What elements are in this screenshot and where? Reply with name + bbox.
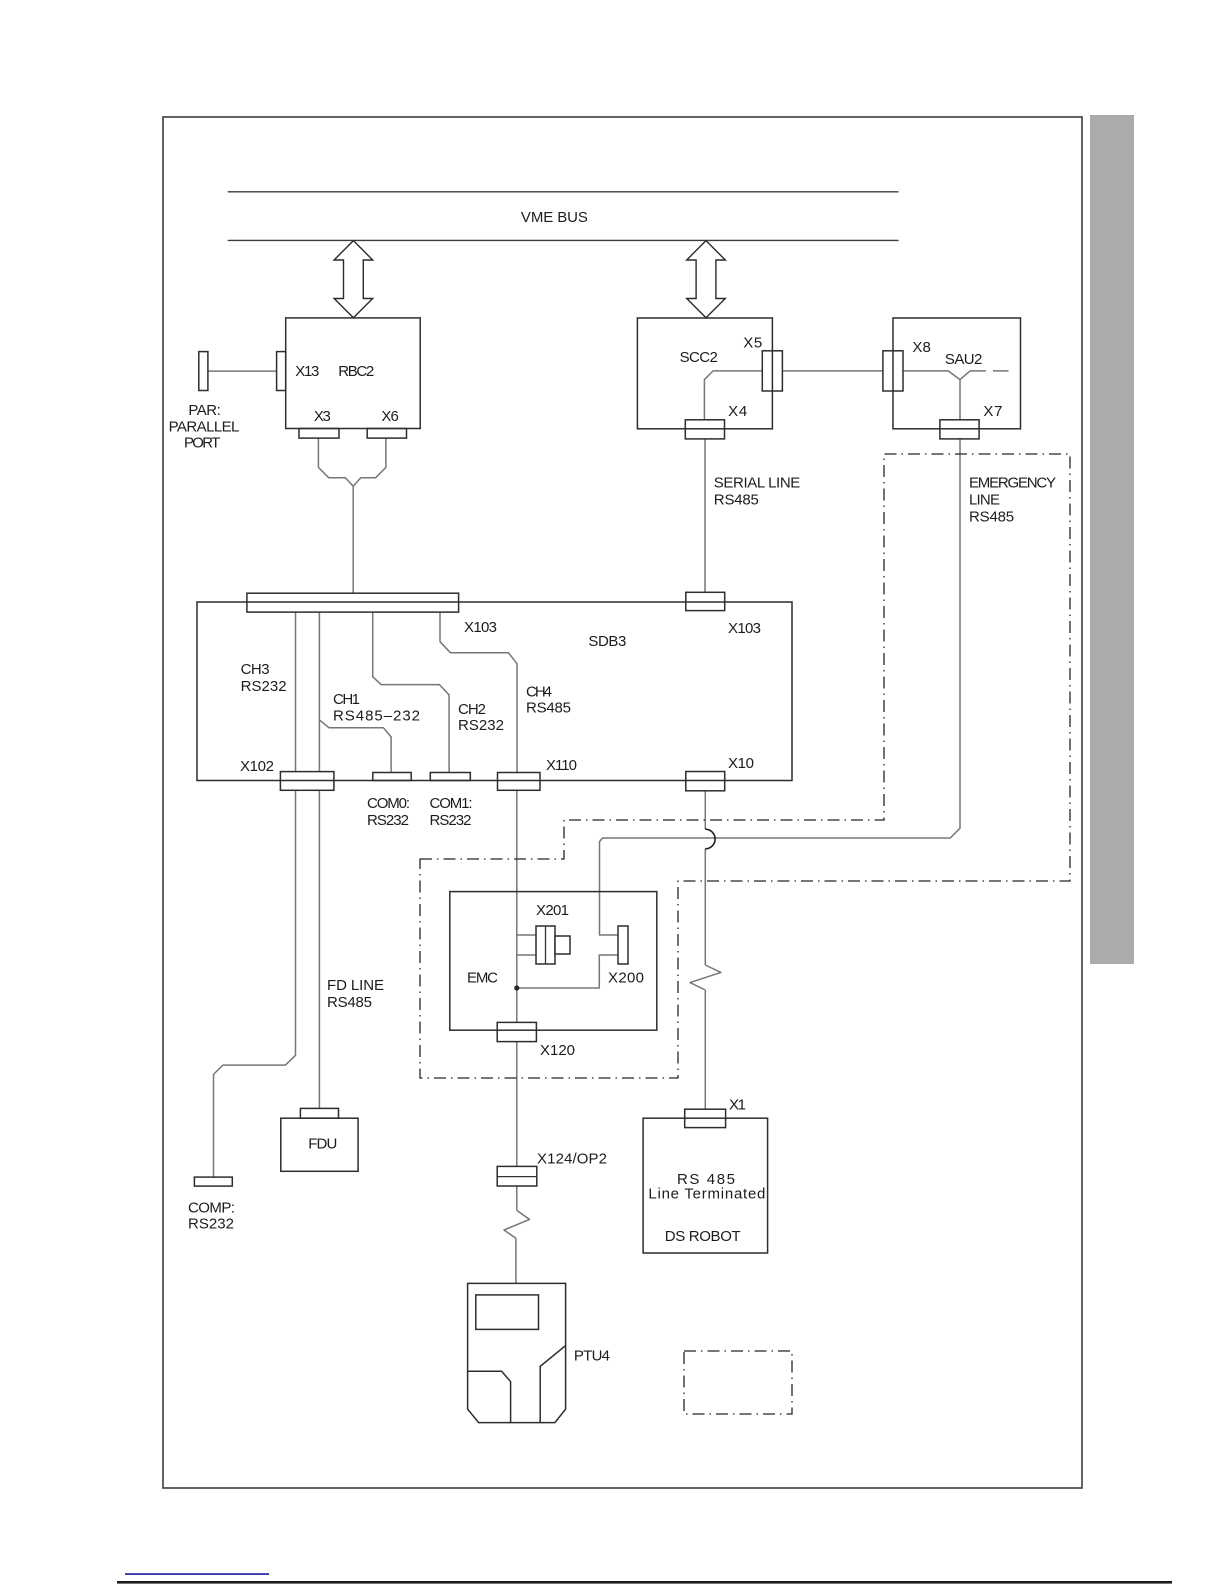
box SAU2 (893, 318, 1021, 429)
svg-text:COM1:: COM1: (430, 795, 473, 812)
svg-text:RS485–232: RS485–232 (333, 708, 420, 725)
box RBC2 (286, 318, 421, 429)
connector X5 (762, 351, 782, 391)
svg-text:X124/OP2: X124/OP2 (537, 1151, 607, 1168)
svg-text:VME BUS: VME BUS (521, 209, 588, 226)
wire X3 merge branch (318, 438, 353, 486)
connector X6 (367, 429, 406, 439)
connector FDU top (300, 1108, 338, 1118)
svg-text:SAU2: SAU2 (945, 351, 983, 368)
svg-text:X120: X120 (540, 1042, 575, 1059)
wire junction to X120 (516, 988, 518, 1022)
wire cable break to PTU4 (515, 1238, 517, 1283)
connector X110 (498, 773, 541, 791)
box SCC2 (637, 318, 772, 429)
emergency/EMC dash-dot boundary (420, 454, 1070, 1078)
svg-text:CH4: CH4 (526, 684, 552, 701)
wire EMC junction to X200 (517, 955, 618, 988)
wire CH4 to X110 (440, 612, 517, 772)
wire X6 merge branch (353, 438, 386, 486)
svg-text:Line Terminated: Line Terminated (648, 1186, 765, 1203)
wire CH2 to COM1 (373, 612, 449, 772)
wire serial X4 to X103 (704, 439, 706, 592)
svg-text:FDU: FDU (308, 1135, 337, 1152)
wire CH3 to X102 and COMP (214, 612, 296, 1177)
wire SCC2 X5 to X4 (704, 371, 762, 420)
svg-text:X3: X3 (314, 408, 331, 425)
connector X8 (883, 351, 903, 391)
box DS ROBOT (643, 1118, 768, 1253)
svg-text:X103: X103 (728, 620, 761, 637)
wire CH3 second line to FDU (318, 612, 320, 1108)
page frame (decorative) (163, 117, 1082, 1488)
svg-text:EMERGENCY: EMERGENCY (969, 474, 1056, 491)
connector X7 (940, 420, 979, 439)
svg-text:EMC: EMC (467, 970, 498, 987)
svg-text:SDB3: SDB3 (588, 633, 626, 650)
svg-text:SCC2: SCC2 (680, 349, 718, 366)
box EMC (450, 892, 657, 1031)
connector X10 (686, 772, 725, 791)
cable break zigzag on PTU line (504, 1210, 530, 1238)
PTU4 display (476, 1295, 539, 1330)
connector X124/OP2 (497, 1166, 537, 1186)
wire X124 to cable break (516, 1186, 518, 1210)
connector COMP plug (194, 1177, 232, 1186)
wire SAU2 X8 to X7 fork (903, 371, 970, 420)
spare dash-dot box (684, 1351, 792, 1414)
svg-text:DS ROBOT: DS ROBOT (665, 1228, 741, 1245)
svg-text:RS232: RS232 (188, 1216, 234, 1233)
svg-text:CH3: CH3 (241, 661, 270, 678)
connector X201 mid line (545, 926, 547, 964)
svg-text:RS485: RS485 (969, 508, 1014, 525)
wire X120 to X124 (516, 1042, 518, 1167)
svg-text:X103: X103 (464, 619, 497, 636)
svg-text:SERIAL LINE: SERIAL LINE (714, 474, 801, 491)
svg-text:X5: X5 (743, 334, 762, 351)
wire RBC2 to X103 bar (352, 486, 354, 593)
wire serial X10 down (704, 789, 706, 1109)
connector X102 (280, 772, 334, 791)
svg-text:X7: X7 (983, 403, 1002, 420)
connector X201 tab (555, 936, 570, 954)
PTU4 pendant outline (468, 1283, 566, 1422)
svg-text:RS232: RS232 (430, 812, 472, 829)
cable break zigzag on robot line (690, 965, 721, 990)
svg-text:X201: X201 (536, 902, 569, 919)
box FDU (281, 1118, 358, 1171)
svg-text:PTU4: PTU4 (574, 1348, 610, 1365)
wire CH1 to COM0 (319, 720, 391, 773)
svg-text:X110: X110 (546, 757, 577, 774)
connector X1 (685, 1109, 726, 1127)
connector X3 (299, 429, 339, 439)
connector X124 mid line (497, 1176, 537, 1178)
svg-text:X200: X200 (608, 970, 644, 987)
connector COM1 (430, 773, 470, 781)
svg-text:RS232: RS232 (367, 812, 409, 829)
svg-text:LINE: LINE (969, 491, 1000, 508)
svg-text:CH1: CH1 (333, 691, 360, 708)
PTU4 left grip line (468, 1371, 511, 1422)
connector X13 (277, 352, 286, 391)
wire X5 to X8 (782, 370, 883, 372)
VME BUS (228, 192, 899, 241)
svg-text:COM0:: COM0: (367, 795, 410, 812)
svg-text:RS485: RS485 (526, 700, 571, 717)
bus arrow to SCC2 (687, 241, 726, 318)
connector X103 right (686, 592, 725, 610)
svg-text:RBC2: RBC2 (338, 363, 374, 380)
svg-text:X10: X10 (728, 755, 754, 772)
PTU4 right grip line (540, 1346, 565, 1423)
svg-text:X13: X13 (295, 363, 319, 380)
svg-text:PORT: PORT (184, 435, 220, 452)
wire PAR to X13 (208, 370, 277, 372)
svg-text:X4: X4 (728, 403, 747, 420)
wire X110 to EMC X201 (517, 790, 536, 988)
box SDB3 (197, 602, 792, 781)
svg-text:RS485: RS485 (327, 994, 372, 1011)
connector X4 (685, 420, 724, 439)
svg-text:X102: X102 (240, 758, 274, 775)
svg-text:COMP:: COMP: (188, 1200, 235, 1217)
svg-text:X8: X8 (912, 339, 930, 356)
dashed stub in SAU2 (970, 370, 1009, 372)
connector X201 pair (536, 926, 555, 964)
svg-text:RS232: RS232 (241, 678, 287, 695)
wire emergency X7 to EMC (600, 439, 961, 935)
connector X200 (618, 926, 628, 964)
connector X103 bar on SDB3 (247, 593, 459, 612)
svg-text:CH2: CH2 (458, 701, 486, 718)
svg-text:X6: X6 (381, 408, 399, 425)
svg-text:PAR:: PAR: (188, 402, 220, 419)
connector COM0 (373, 773, 411, 781)
svg-text:PARALLEL: PARALLEL (169, 419, 240, 436)
svg-text:RS485: RS485 (714, 491, 759, 508)
junction node in EMC (514, 985, 519, 990)
connector PAR plug (199, 352, 208, 391)
svg-text:RS232: RS232 (458, 717, 504, 734)
wire hop arc over emergency line (705, 829, 715, 849)
bus arrow to RBC2 (334, 241, 373, 318)
svg-text:FD LINE: FD LINE (327, 977, 384, 994)
svg-text:X1: X1 (729, 1097, 746, 1114)
connector X120 (497, 1022, 536, 1041)
